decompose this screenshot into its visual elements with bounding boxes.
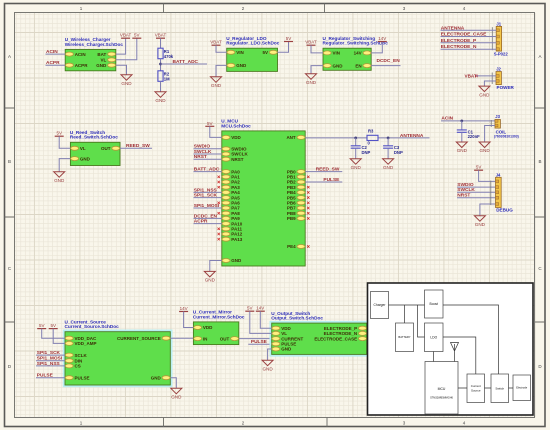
wire J3 pin2 to GND — [485, 126, 495, 143]
ground divider — [155, 92, 166, 103]
svg-text:GND: GND — [121, 81, 132, 86]
net label PULSE mcu — [323, 177, 340, 183]
svg-text:2: 2 — [242, 421, 245, 426]
svg-text:SPI1_SCK: SPI1_SCK — [37, 350, 61, 356]
svg-text:J3: J3 — [495, 114, 500, 119]
svg-text:DCDC_EN: DCDC_EN — [194, 213, 218, 219]
svg-text:POWER: POWER — [497, 85, 515, 90]
wire VBAT to J2 — [476, 75, 496, 77]
wire PULSE osw — [248, 343, 271, 345]
block Electrode — [513, 375, 531, 401]
svg-text:ELECTRODE_N: ELECTRODE_N — [441, 44, 477, 50]
sheet symbol U_MCU — [221, 119, 305, 266]
svg-text:470k: 470k — [164, 54, 174, 59]
svg-text:DEBUG: DEBUG — [496, 208, 513, 213]
power 5V osw — [245, 306, 254, 312]
wire 14V to VDD osw — [260, 311, 271, 328]
block Charger — [371, 292, 389, 319]
svg-text:PE4: PE4 — [287, 244, 296, 249]
svg-text:GND: GND — [479, 92, 490, 97]
wire 14V out — [371, 42, 382, 53]
svg-text:VBAT: VBAT — [210, 40, 222, 45]
wire SPI1_SCK cs — [36, 354, 65, 356]
no-ERC marks mcu right — [307, 176, 309, 248]
power 14V — [378, 36, 387, 42]
svg-text:3: 3 — [403, 6, 406, 11]
svg-text:GND: GND — [306, 80, 317, 85]
ground switching — [306, 74, 317, 85]
wire SPI1_NSS mcu — [194, 191, 222, 193]
net label VBAT J2 — [465, 73, 477, 78]
svg-text:OUT: OUT — [101, 146, 111, 151]
wire BAT to VBAT — [116, 38, 126, 54]
svg-text:EN: EN — [355, 63, 361, 68]
svg-text:(760308101303): (760308101303) — [494, 135, 519, 139]
wire ACIN — [46, 53, 66, 55]
junction BATT_ADC — [159, 63, 162, 66]
wire REED_SW — [120, 147, 152, 149]
block BATTERY — [396, 323, 414, 352]
svg-text:PULSE: PULSE — [251, 339, 268, 345]
wire VL to 5V — [116, 38, 137, 60]
net label PULSE cs — [37, 373, 54, 379]
svg-text:BATT_ADC: BATT_ADC — [173, 59, 199, 65]
svg-text:SPI1_SCK: SPI1_SCK — [194, 193, 218, 199]
svg-text:STM32WB5MMGH6: STM32WB5MMGH6 — [430, 397, 453, 400]
wire GND reed — [59, 159, 70, 172]
svg-text:VBAT: VBAT — [465, 73, 477, 78]
svg-text:SWDIO: SWDIO — [457, 182, 474, 188]
svg-text:SPI1_MOSI: SPI1_MOSI — [37, 356, 63, 362]
wire GND cs — [170, 378, 176, 389]
svg-text:GND: GND — [205, 278, 216, 283]
wire J4 GND — [480, 204, 496, 216]
wire CURRENT_SOURCE net — [170, 337, 193, 339]
svg-text:ACIN: ACIN — [75, 52, 86, 57]
svg-text:ELECTRODE_CASE: ELECTRODE_CASE — [441, 32, 487, 38]
wire BATT_ADC stub — [161, 63, 208, 65]
svg-text:GND: GND — [383, 165, 394, 170]
wire 5V out — [278, 42, 289, 53]
svg-text:GND: GND — [281, 347, 292, 352]
svg-text:Source: Source — [471, 388, 481, 392]
wire GND ldo — [216, 65, 227, 76]
sheet symbol U_Output_Switch — [270, 311, 369, 357]
power 5V debug — [474, 165, 483, 171]
svg-text:MCU: MCU — [438, 387, 446, 391]
svg-text:5V: 5V — [134, 33, 140, 38]
net label SPI1_SCK mcu — [194, 193, 218, 199]
net label NRST mcu — [194, 154, 207, 160]
svg-text:Charger: Charger — [374, 303, 387, 307]
svg-text:5V: 5V — [262, 50, 268, 55]
net label PULSE osw — [251, 339, 268, 345]
net label ANTENNA — [400, 133, 424, 139]
ground J3 — [479, 142, 490, 153]
capacitor C3 DNP — [383, 138, 403, 159]
wire ANTENNA to J1 — [441, 29, 497, 31]
net label SPI1_MOSI mcu — [194, 203, 220, 209]
resistor R3 0 — [367, 129, 378, 146]
wire ANT net — [305, 137, 429, 139]
svg-text:B: B — [8, 159, 11, 164]
ground ldo — [211, 77, 222, 88]
wire GND mcu — [210, 261, 222, 272]
net label SPI1_SCK cs — [37, 350, 61, 356]
svg-text:J1: J1 — [496, 21, 501, 26]
resistor R2 1M — [158, 71, 170, 82]
svg-text:GND: GND — [351, 165, 362, 170]
svg-text:GND: GND — [151, 375, 162, 380]
svg-text:5V: 5V — [39, 323, 45, 328]
svg-text:ELECTRODE_CASE: ELECTRODE_CASE — [314, 336, 357, 341]
wire SWDIO mcu — [194, 148, 222, 150]
wire ACPR mcu — [194, 223, 222, 225]
sheet symbol U_Regulator_LDO — [226, 36, 280, 72]
svg-text:PB9: PB9 — [287, 216, 296, 221]
power 5V mcu — [205, 121, 214, 127]
connector J1 — [492, 21, 508, 56]
wire ACPR — [46, 64, 66, 66]
ground cs — [171, 388, 182, 399]
svg-text:Regulator_LDO.SchDoc: Regulator_LDO.SchDoc — [226, 41, 280, 46]
net label SPI1_NSS mcu — [194, 187, 218, 193]
svg-text:5V: 5V — [476, 165, 482, 170]
net label ELECTRODE_N J1 — [441, 44, 477, 50]
ground charger — [121, 75, 132, 86]
svg-text:PULSE: PULSE — [323, 177, 340, 183]
net label SPI1_MOSI cs — [37, 356, 63, 362]
wire GND sw — [311, 66, 323, 74]
wire ACIN coil — [441, 120, 495, 122]
wire SPI1_MOSI mcu — [194, 207, 222, 209]
svg-text:S-P022: S-P022 — [494, 51, 509, 56]
wire 5V to VDD_DAC — [42, 329, 65, 339]
net label ELECTRODE_P J1 — [441, 38, 477, 44]
wire 5V to VDD mcu — [210, 126, 222, 137]
svg-text:Current_Source.SchDoc: Current_Source.SchDoc — [65, 324, 120, 329]
svg-text:VDD_AMP: VDD_AMP — [75, 341, 97, 346]
wire NRST mcu — [194, 158, 222, 160]
svg-text:B: B — [538, 159, 541, 164]
resistor R1 470k — [158, 48, 174, 59]
wire 5V to VL osw — [250, 311, 272, 333]
svg-text:5V: 5V — [207, 121, 213, 126]
junction C1 — [460, 120, 463, 123]
svg-text:ELECTRODE_P: ELECTRODE_P — [441, 38, 477, 44]
svg-text:GND: GND — [457, 148, 468, 153]
svg-text:GND: GND — [479, 148, 490, 153]
svg-text:Boost: Boost — [430, 302, 439, 306]
ground C1 — [456, 142, 467, 153]
power 5V ldo out — [284, 36, 293, 42]
svg-text:SCLK: SCLK — [75, 353, 88, 358]
no-ERC marks mcu left — [218, 176, 220, 241]
svg-text:VBAT: VBAT — [120, 33, 132, 38]
svg-text:ACIN: ACIN — [46, 49, 58, 55]
svg-text:BATTERY: BATTERY — [398, 335, 410, 339]
svg-text:C: C — [8, 266, 12, 271]
svg-text:GND: GND — [262, 366, 273, 371]
net label ACIN — [46, 49, 58, 55]
svg-text:DNP: DNP — [394, 150, 403, 155]
svg-text:0: 0 — [368, 141, 371, 146]
svg-text:1: 1 — [80, 6, 83, 11]
svg-text:1: 1 — [80, 421, 83, 426]
wire GND osw — [268, 349, 272, 360]
svg-text:SWDIO: SWDIO — [194, 144, 211, 150]
junction C2 — [354, 137, 357, 140]
ground osw — [262, 360, 273, 371]
wire BATT_ADC mcu — [194, 171, 222, 173]
wire SPI1_NSS cs — [36, 365, 65, 367]
net label ELECTRODE_CASE J1 — [441, 32, 487, 38]
block diagram frame — [368, 283, 534, 415]
net label SPI1_NSS cs — [37, 361, 61, 367]
wire ELECTRODE_CASE to J1 — [441, 36, 497, 38]
svg-text:14V: 14V — [256, 306, 264, 311]
wire OUT to CURRENT — [239, 338, 272, 340]
ground mcu — [204, 271, 215, 282]
power VBAT divider — [155, 33, 167, 39]
wire SPI1_MOSI cs — [36, 360, 65, 362]
power 14V mirror — [179, 306, 188, 312]
net label SWCLK mcu — [194, 149, 212, 155]
net label SWDIO debug — [457, 182, 474, 188]
wire R2 to GND — [160, 81, 162, 92]
wire 5V to VL reed — [59, 136, 70, 148]
svg-text:NRST: NRST — [457, 193, 470, 199]
svg-text:GND: GND — [171, 395, 182, 400]
wire 5V to J4 — [479, 170, 496, 181]
svg-text:BAT: BAT — [97, 52, 106, 57]
svg-text:1M: 1M — [164, 76, 170, 81]
net label DCDC_EN — [377, 58, 401, 64]
svg-text:GND: GND — [80, 156, 91, 161]
svg-text:GND: GND — [54, 178, 65, 183]
wire NRST debug — [457, 197, 496, 199]
svg-text:DNP: DNP — [362, 150, 371, 155]
net label ACIN coil — [441, 116, 453, 122]
svg-text:ACIN: ACIN — [441, 116, 453, 122]
svg-text:GND: GND — [333, 63, 344, 68]
no-ERC mark VBAT J2 — [475, 75, 477, 77]
svg-text:14V: 14V — [180, 306, 188, 311]
wire DCDC_EN mcu — [194, 217, 222, 219]
svg-text:4: 4 — [463, 421, 466, 426]
ground C2 — [350, 159, 361, 170]
svg-text:Wireless_Charger.SchDoc: Wireless_Charger.SchDoc — [65, 42, 124, 47]
block Current Source — [467, 374, 485, 403]
wire 14V to VDD mirror — [184, 312, 194, 328]
power 14V osw — [256, 306, 265, 312]
sheet symbol U_Reed_Switch — [70, 130, 120, 166]
svg-text:Output_Switch.SchDoc: Output_Switch.SchDoc — [271, 316, 323, 321]
svg-text:14V: 14V — [354, 51, 362, 56]
capacitor C2 DNP — [351, 138, 371, 159]
svg-text:REED_SW: REED_SW — [316, 167, 340, 173]
wire J2 pin2 to GND — [484, 81, 496, 86]
svg-text:3: 3 — [403, 421, 406, 426]
svg-text:ANT: ANT — [286, 135, 295, 140]
wire ELECTRODE_N to J1 — [441, 48, 497, 50]
capacitor C1 220nF — [457, 121, 480, 142]
junction C3 — [387, 137, 390, 140]
wire VBAT to VIN sw — [311, 45, 323, 53]
block Boost — [425, 290, 444, 318]
connector J4 DEBUG — [491, 172, 513, 212]
svg-text:REED_SW: REED_SW — [126, 143, 150, 149]
svg-text:BATT_ADC: BATT_ADC — [194, 167, 220, 173]
svg-text:2: 2 — [242, 6, 245, 11]
svg-text:C: C — [538, 266, 542, 271]
svg-text:VL: VL — [101, 58, 107, 63]
svg-text:NRST: NRST — [231, 157, 244, 162]
svg-text:R3: R3 — [368, 129, 374, 134]
wire DCDC_EN — [371, 65, 400, 67]
svg-text:Reed_Switch.SchDoc: Reed_Switch.SchDoc — [70, 135, 118, 140]
svg-text:VBAT: VBAT — [155, 33, 167, 38]
svg-text:IN: IN — [203, 336, 208, 341]
sheet symbol U_Current_Source — [63, 319, 173, 387]
svg-text:VIN: VIN — [236, 50, 244, 55]
wire ELECTRODE_P to J1 — [441, 42, 497, 44]
connector J3 COIL — [491, 114, 519, 138]
svg-text:D: D — [8, 364, 12, 369]
ground reed — [54, 172, 65, 183]
net label DCDC_EN mcu — [194, 213, 218, 219]
svg-text:ANTENNA: ANTENNA — [441, 25, 465, 31]
svg-text:GND: GND — [475, 222, 486, 227]
svg-text:DCDC_EN: DCDC_EN — [377, 58, 401, 64]
svg-text:VL: VL — [80, 146, 86, 151]
svg-text:ACPR: ACPR — [46, 60, 60, 66]
net label SWCLK debug — [457, 187, 475, 193]
wire VBAT to VIN — [216, 45, 227, 52]
svg-text:VDD: VDD — [203, 325, 213, 330]
svg-text:COIL: COIL — [496, 129, 507, 134]
wire SWCLK mcu — [194, 153, 222, 155]
svg-text:5V: 5V — [286, 36, 292, 41]
svg-text:A: A — [538, 54, 541, 59]
svg-text:PA13: PA13 — [231, 237, 242, 242]
wire 5V to VDD_AMP — [53, 329, 65, 344]
wire SWCLK debug — [457, 191, 496, 193]
svg-text:Electrode: Electrode — [516, 386, 528, 390]
net label SWDIO mcu — [194, 144, 211, 150]
svg-text:PULSE: PULSE — [37, 373, 54, 379]
svg-text:J4: J4 — [496, 172, 501, 177]
wire VBAT to R1 — [160, 38, 162, 48]
svg-text:J2: J2 — [496, 67, 501, 72]
wire GND charger — [116, 65, 127, 75]
svg-text:A: A — [8, 54, 11, 59]
power 5V cs2 — [49, 323, 58, 329]
svg-text:Switch: Switch — [495, 386, 504, 390]
svg-text:4: 4 — [463, 6, 466, 11]
net label REED_SW reed — [126, 143, 150, 149]
wire PULSE mcu — [305, 181, 342, 183]
wire PULSE cs — [36, 377, 65, 379]
block LDO — [425, 323, 444, 352]
net label ACPR — [46, 60, 60, 66]
svg-text:SPI1_NSS: SPI1_NSS — [194, 187, 218, 193]
svg-text:VDD: VDD — [231, 135, 241, 140]
svg-text:PULSE: PULSE — [75, 375, 90, 380]
wire SPI1_SCK mcu — [194, 197, 222, 199]
diagram antenna — [451, 343, 459, 362]
svg-text:ANTENNA: ANTENNA — [400, 133, 424, 139]
ground J2 — [479, 86, 490, 97]
svg-text:MCU.SchDoc: MCU.SchDoc — [221, 123, 251, 128]
svg-text:OUT: OUT — [220, 336, 230, 341]
svg-text:SWCLK: SWCLK — [457, 187, 475, 193]
svg-text:5V: 5V — [56, 131, 62, 136]
wire REED_SW mcu — [305, 171, 342, 173]
svg-text:ACPR: ACPR — [194, 219, 208, 225]
block Switch — [491, 374, 509, 403]
ground debug — [474, 216, 485, 227]
power 5V reed — [55, 131, 64, 137]
svg-text:5V: 5V — [247, 306, 253, 311]
net label ACPR mcu — [194, 219, 208, 225]
svg-text:CURRENT_SOURCE: CURRENT_SOURCE — [117, 336, 161, 341]
sheet symbol U_Regulator_Switching — [323, 36, 389, 70]
svg-text:VIN: VIN — [333, 51, 341, 56]
net label ANTENNA J1 — [441, 25, 465, 31]
block MCU — [425, 362, 458, 415]
svg-text:GND: GND — [155, 98, 166, 103]
svg-text:5V: 5V — [50, 323, 56, 328]
diagram wires — [389, 305, 514, 388]
net label NRST debug — [457, 193, 470, 199]
ground C3 — [383, 159, 394, 170]
svg-text:LDO: LDO — [430, 335, 437, 339]
sheet symbol U_Wireless_Charger — [65, 37, 124, 71]
svg-text:SPI1_MOSI: SPI1_MOSI — [194, 203, 220, 209]
svg-text:D: D — [538, 364, 542, 369]
wire R1 to R2 — [160, 59, 162, 71]
svg-text:SPI1_NSS: SPI1_NSS — [37, 361, 61, 367]
svg-text:NRST: NRST — [194, 154, 207, 160]
svg-text:GND: GND — [211, 83, 222, 88]
power 5V — [132, 33, 141, 39]
svg-text:ACPR: ACPR — [75, 63, 89, 68]
net label REED_SW mcu — [316, 167, 340, 173]
net label BATT_ADC mcu — [194, 167, 220, 173]
svg-text:GND: GND — [231, 258, 242, 263]
power VBAT ldo — [210, 40, 222, 46]
power VBAT — [120, 33, 132, 39]
svg-text:Current_Mirror.SchDoc: Current_Mirror.SchDoc — [193, 314, 245, 319]
svg-text:GND: GND — [96, 63, 107, 68]
power VBAT switching — [305, 40, 317, 46]
svg-text:SWCLK: SWCLK — [194, 149, 212, 155]
power 5V cs1 — [37, 323, 46, 329]
sheet symbol U_Current_Mirror — [193, 310, 245, 345]
connector J2 POWER — [492, 67, 514, 91]
svg-text:220nF: 220nF — [468, 134, 481, 139]
net label BATT_ADC — [173, 59, 199, 65]
svg-text:GND: GND — [236, 63, 247, 68]
svg-text:CS: CS — [75, 364, 81, 369]
wire SWDIO debug — [457, 186, 496, 188]
svg-text:14V: 14V — [378, 36, 386, 41]
svg-text:VBAT: VBAT — [305, 40, 317, 45]
